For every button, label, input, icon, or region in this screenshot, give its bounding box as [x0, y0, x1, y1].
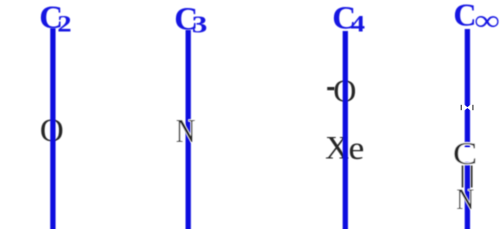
svg-text:3: 3	[192, 12, 208, 39]
svg-text:4: 4	[351, 11, 365, 37]
svg-text:2: 2	[57, 11, 71, 37]
svg-text:C: C	[453, 0, 476, 33]
svg-text:N: N	[456, 183, 474, 216]
svg-text:N: N	[176, 112, 196, 150]
svg-text:∞: ∞	[475, 4, 500, 37]
svg-text:e: e	[348, 130, 364, 167]
svg-text:C: C	[453, 137, 477, 171]
